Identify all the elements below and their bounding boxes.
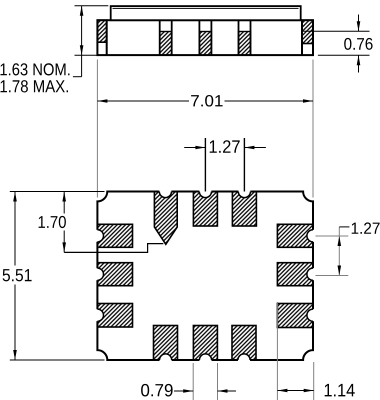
castellation notch top 2 xyxy=(199,185,211,197)
pad bottom 2 xyxy=(193,326,217,361)
castellation slot 1 (side view) xyxy=(160,20,172,55)
dimension 1.70 with leader to pin 1 pad tip xyxy=(39,192,164,253)
bottom view package outline xyxy=(97,192,313,361)
pad right 1 xyxy=(277,224,313,247)
dimension 1.27 (top pads pitch) xyxy=(184,138,266,192)
dimension 1.63 NOM / 1.78 MAX xyxy=(0,6,108,93)
pad 1 pentagon (pin 1, top-left) xyxy=(154,192,177,245)
text label 1.27 xyxy=(210,140,240,153)
pad top 3 xyxy=(232,192,256,227)
castellation notch left 2 xyxy=(91,268,103,280)
dimension 1.27 (right pads pitch) xyxy=(316,222,380,275)
castellation slot 3 (side view) xyxy=(239,20,251,55)
pad left 2 xyxy=(97,263,132,286)
castellation notch bottom 1 xyxy=(160,354,172,366)
side view body xyxy=(97,20,313,55)
castellation notch left 3 xyxy=(91,309,103,321)
dimension 0.79 (bottom pad width) xyxy=(141,363,236,400)
dimension 1.14 (right pad length) xyxy=(277,302,354,400)
lid (side view) xyxy=(111,6,301,20)
text label 1.63 NOM. xyxy=(0,63,69,75)
pad bottom 1 xyxy=(154,326,178,361)
text label 1.70 xyxy=(39,216,66,228)
pad right 3 xyxy=(277,304,313,328)
castellation notch right 2 xyxy=(307,268,319,280)
text label 0.79 xyxy=(141,384,173,397)
pad right 2 xyxy=(277,263,313,286)
castellation notch right 1 xyxy=(307,230,319,242)
text label 7.01 xyxy=(191,95,222,107)
pad left 3 xyxy=(97,304,132,328)
dimension 0.76 xyxy=(303,15,373,73)
left castellation pad (side view) xyxy=(97,20,106,55)
dimension 7.01 xyxy=(97,60,313,198)
text label 1.27 xyxy=(352,222,380,233)
text label 0.76 xyxy=(344,38,372,50)
castellation notch top 3 xyxy=(238,185,250,197)
castellation notch top 1 xyxy=(159,185,171,197)
castellation notch bottom 2 xyxy=(199,354,211,366)
pad bottom 3 xyxy=(232,326,256,361)
castellation notch left 1 xyxy=(91,230,103,242)
text label 5.51 xyxy=(3,269,32,281)
castellation notch bottom 3 xyxy=(238,354,250,366)
text label 1.14 xyxy=(325,384,355,396)
dimension 5.51 xyxy=(3,192,105,361)
pad left 1 xyxy=(97,224,132,247)
castellation notch right 3 xyxy=(307,309,319,321)
text label 1.78 MAX. xyxy=(1,80,68,92)
pad top 2 xyxy=(193,192,217,227)
castellation slot 2 (side view) xyxy=(199,20,211,55)
right castellation pad (side view) xyxy=(302,20,313,55)
